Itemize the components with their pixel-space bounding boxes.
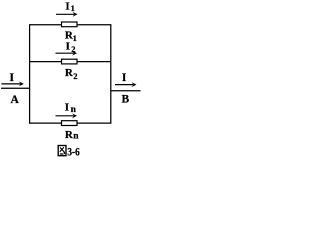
- svg-text:A: A: [11, 94, 20, 106]
- current arrow In: [56, 113, 78, 118]
- wire: input lead at node A: [1, 87, 30, 89]
- label R1: [65, 30, 77, 43]
- svg-text:I: I: [65, 102, 69, 114]
- svg-text:B: B: [122, 94, 130, 106]
- svg-text:2: 2: [71, 44, 75, 54]
- wire: branch 1: [30, 24, 111, 26]
- svg-text:3-6: 3-6: [67, 145, 79, 159]
- current arrow I1: [56, 12, 78, 17]
- wire: left bus: [29, 24, 31, 124]
- wire: branch 2: [30, 61, 111, 63]
- label I2: [66, 40, 76, 54]
- label I1: [65, 0, 74, 13]
- current arrow I (output): [115, 82, 137, 87]
- svg-text:I: I: [65, 0, 69, 12]
- resistor R2: [62, 59, 78, 64]
- svg-text:I: I: [10, 72, 15, 84]
- label R2: [65, 67, 78, 81]
- svg-text:I: I: [122, 72, 127, 84]
- svg-text:n: n: [73, 132, 79, 142]
- resistor R1: [62, 22, 78, 27]
- current arrow I2: [56, 51, 78, 56]
- svg-text:I: I: [66, 40, 70, 52]
- current arrow I (input): [2, 82, 24, 87]
- label In: [65, 102, 77, 115]
- caption: figure label 图3-6 (hanzi drawn as strokes): [58, 145, 80, 159]
- resistor Rn: [62, 121, 78, 126]
- label Rn: [65, 129, 79, 141]
- svg-text:n: n: [71, 105, 77, 115]
- wire: branch n: [30, 122, 111, 124]
- svg-text:1: 1: [73, 33, 77, 43]
- wire: output lead at node B: [111, 90, 141, 92]
- wire: right bus: [110, 24, 112, 124]
- svg-text:2: 2: [73, 71, 77, 81]
- svg-text:1: 1: [71, 3, 75, 13]
